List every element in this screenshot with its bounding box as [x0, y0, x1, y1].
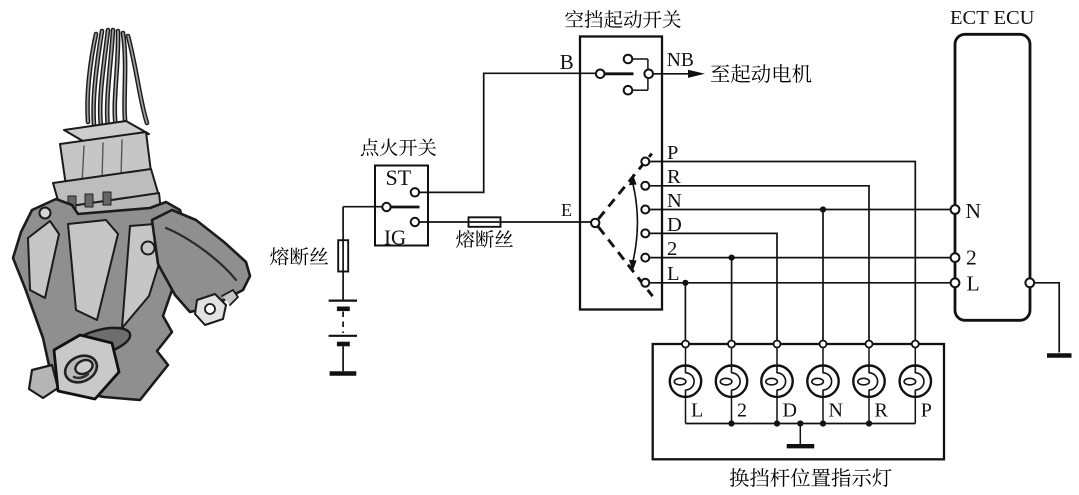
svg-text:2: 2 — [667, 238, 677, 260]
wire: R to lamp — [649, 186, 869, 341]
svg-text:N: N — [966, 199, 982, 223]
svg-text:N: N — [667, 190, 682, 212]
svg-text:E: E — [561, 200, 572, 220]
selector common contact E — [591, 219, 599, 227]
wire: terminal to lamp D — [776, 348, 778, 366]
lamp R — [853, 366, 884, 397]
wire: 2 junction down to lamp — [731, 258, 733, 341]
wire: NB out of box — [653, 73, 689, 75]
shift indicator lamp box — [653, 344, 944, 459]
wire: lamp 2 to bus — [731, 397, 733, 424]
fuse F1 (vertical) — [338, 240, 348, 271]
starter switch common contact (left) — [596, 70, 605, 79]
wire: battery to ground — [342, 346, 344, 371]
bus junction — [866, 420, 872, 426]
ground (ECU) — [1047, 353, 1072, 357]
neutral start switch box — [580, 37, 662, 310]
battery cell 2 plus plate — [329, 335, 357, 337]
svg-text:L: L — [667, 263, 680, 285]
svg-text:2: 2 — [737, 400, 747, 422]
wire: common to left — [343, 206, 382, 208]
svg-text:D: D — [783, 400, 797, 422]
lamp terminal L — [682, 341, 689, 348]
wire: IG to E — [419, 221, 591, 223]
bus junction ground — [797, 420, 803, 426]
svg-text:L: L — [691, 400, 703, 422]
battery cell 1 minus plate — [337, 306, 350, 311]
battery dashed link — [342, 312, 344, 334]
terminal P of neutral start switch — [641, 158, 649, 166]
lamp L — [670, 366, 701, 397]
ECU ground pin — [1025, 278, 1034, 287]
svg-text:P: P — [667, 142, 678, 164]
ignition switch ST contact — [411, 188, 419, 196]
starter switch lower contact — [624, 86, 633, 95]
arrow to starter motor — [688, 70, 705, 78]
lamp terminal P — [912, 341, 919, 348]
wire: lamp D to bus — [776, 397, 778, 424]
wire: terminal to lamp 2 — [731, 348, 733, 366]
terminal 2 of neutral start switch — [641, 254, 649, 262]
label: shift lever position indicator lamps (换挡杆位置指示灯) — [730, 468, 892, 487]
lamp ground bus — [686, 423, 916, 425]
bus junction — [774, 420, 780, 426]
starter switch blade — [605, 72, 634, 75]
selector travel arc — [633, 184, 638, 262]
wire: L to ECU — [649, 282, 951, 284]
bus junction — [728, 420, 734, 426]
ignition switch blade — [391, 206, 420, 209]
label: ignition switch (点火开关) — [361, 138, 436, 156]
svg-text:IG: IG — [384, 226, 406, 250]
svg-text:B: B — [560, 50, 574, 74]
ECU pin N — [951, 205, 960, 214]
wire: ECU ground — [1034, 283, 1059, 353]
ground (lamps) — [787, 444, 815, 448]
ground (battery) — [330, 371, 357, 376]
svg-text:R: R — [875, 400, 889, 422]
svg-text:2: 2 — [966, 246, 977, 270]
terminal N of neutral start switch — [641, 206, 649, 214]
svg-text:N: N — [829, 400, 843, 422]
ECU pin L — [951, 278, 960, 287]
ignition switch IG contact — [411, 218, 419, 226]
junction L — [682, 280, 688, 286]
wire: terminal to lamp R — [868, 348, 870, 366]
svg-text:ECT ECU: ECT ECU — [950, 7, 1035, 29]
label: fuse (熔断丝) left — [270, 247, 328, 265]
wire: ST up to B — [419, 73, 596, 192]
wire: lamp L to bus — [685, 397, 687, 424]
starter switch output contact NB — [644, 70, 653, 79]
wire: lamp R to bus — [868, 397, 870, 424]
junction 2 — [729, 255, 735, 261]
wire: terminal to lamp P — [914, 348, 916, 366]
lamp D — [761, 366, 792, 397]
wire: lamp N to bus — [822, 397, 824, 424]
wire: down to battery — [342, 207, 344, 241]
svg-text:L: L — [967, 271, 980, 295]
svg-text:NB: NB — [667, 50, 694, 71]
junction N — [820, 206, 826, 212]
svg-text:D: D — [667, 214, 682, 236]
ignition switch box — [375, 166, 428, 246]
battery cell 1 plus plate — [329, 300, 357, 302]
label: to starter motor (至起动电机) — [711, 64, 812, 83]
label: fuse (熔断丝) right — [456, 230, 513, 248]
lamp N — [807, 366, 838, 397]
neutral start switch part illustration — [13, 30, 250, 400]
ECT ECU box — [955, 34, 1030, 320]
bus junction — [820, 420, 826, 426]
wire: L junction down to lamp — [684, 283, 686, 341]
terminal L of neutral start switch — [641, 279, 649, 287]
wire: N junction down to lamp — [822, 210, 824, 341]
lamp terminal N — [820, 341, 827, 348]
svg-text:R: R — [667, 166, 681, 188]
selector dashed arm to P — [598, 154, 651, 219]
label: neutral start switch (空挡起动开关) — [565, 10, 680, 28]
ECU pin 2 — [951, 253, 960, 262]
svg-text:P: P — [921, 400, 932, 422]
wire: 2 to ECU — [649, 257, 951, 259]
wire: terminal to lamp N — [822, 348, 824, 366]
wire: lamp P to bus — [914, 397, 916, 424]
svg-text:ST: ST — [386, 165, 412, 190]
lamp terminal 2 — [728, 341, 735, 348]
selector dashed arm to L — [598, 227, 652, 296]
wire: terminal to lamp L — [685, 348, 687, 366]
lamp P — [900, 366, 931, 397]
wire: P to lamp — [649, 162, 915, 341]
ignition switch common contact — [382, 203, 390, 211]
wire: bus to ground — [799, 424, 801, 445]
fuse F2 (horizontal) — [469, 217, 501, 227]
lamp 2 — [716, 366, 747, 397]
terminal D of neutral start switch — [641, 229, 649, 237]
starter switch upper contact — [624, 55, 633, 64]
terminal R of neutral start switch — [641, 182, 649, 190]
battery cell 2 minus plate — [337, 342, 350, 347]
wire: fuse to battery — [342, 272, 344, 300]
wire: N to ECU — [649, 209, 951, 211]
lamp terminal D — [774, 341, 781, 348]
lamp terminal R — [866, 341, 873, 348]
wire: D to lamp — [649, 233, 777, 340]
